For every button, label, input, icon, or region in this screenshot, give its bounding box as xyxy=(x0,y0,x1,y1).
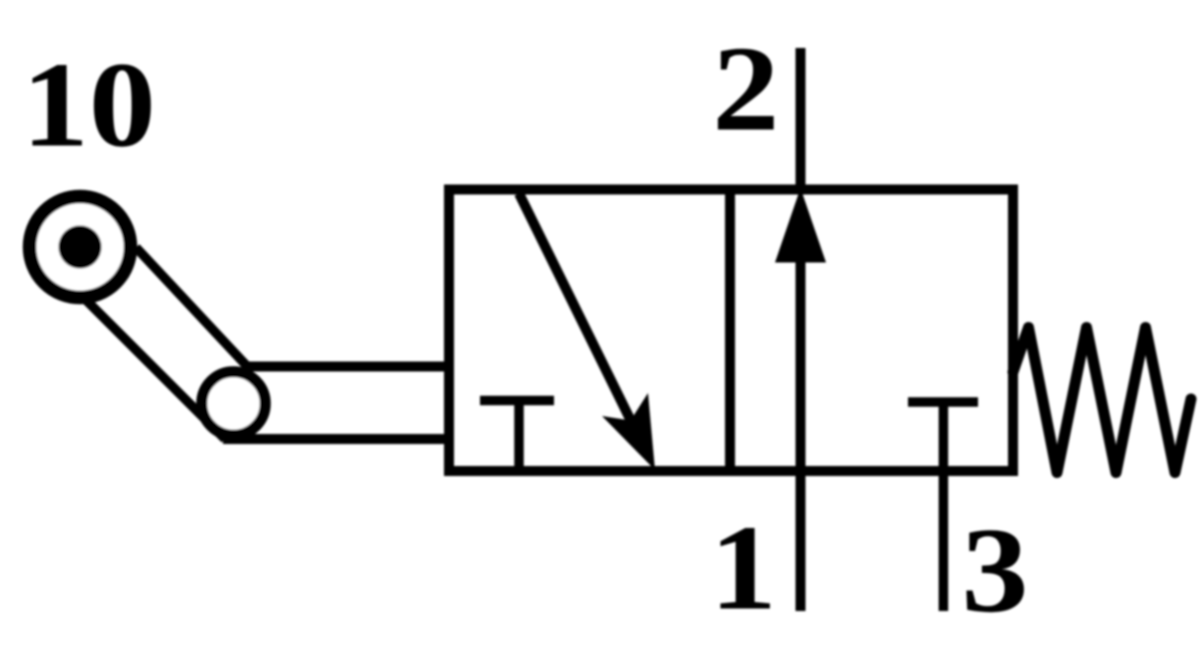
blocked path diagonal (left position) xyxy=(519,194,631,422)
port label 2 xyxy=(712,21,779,156)
lever arm upper edge xyxy=(136,248,247,367)
port label 3 xyxy=(961,503,1028,638)
roller wheel xyxy=(30,197,131,298)
return spring xyxy=(1013,328,1191,473)
svg-text:3: 3 xyxy=(961,503,1028,638)
port label 1 xyxy=(710,500,777,635)
svg-text:2: 2 xyxy=(712,21,779,156)
valve body outline xyxy=(449,190,1013,472)
roller axle dot xyxy=(59,226,102,269)
plunger rod bottom line xyxy=(223,434,453,444)
lever arm lower edge xyxy=(85,299,225,439)
flow arrowhead up (right position) xyxy=(775,188,826,263)
label 10 xyxy=(22,37,156,172)
lever pivot circle xyxy=(202,372,266,436)
svg-text:1: 1 xyxy=(710,500,777,635)
position divider line xyxy=(725,190,735,472)
blocked path arrowhead (left position) xyxy=(602,393,655,470)
right exhaust T stem / port 3 line xyxy=(939,402,949,611)
right exhaust T bar xyxy=(908,397,978,407)
port 1 flow line with arrow shaft xyxy=(796,259,806,611)
plunger rod top line xyxy=(245,362,453,372)
svg-text:10: 10 xyxy=(22,37,156,172)
left exhaust T stem xyxy=(514,401,524,472)
port 2 line xyxy=(796,48,806,193)
left exhaust T bar xyxy=(480,396,554,406)
